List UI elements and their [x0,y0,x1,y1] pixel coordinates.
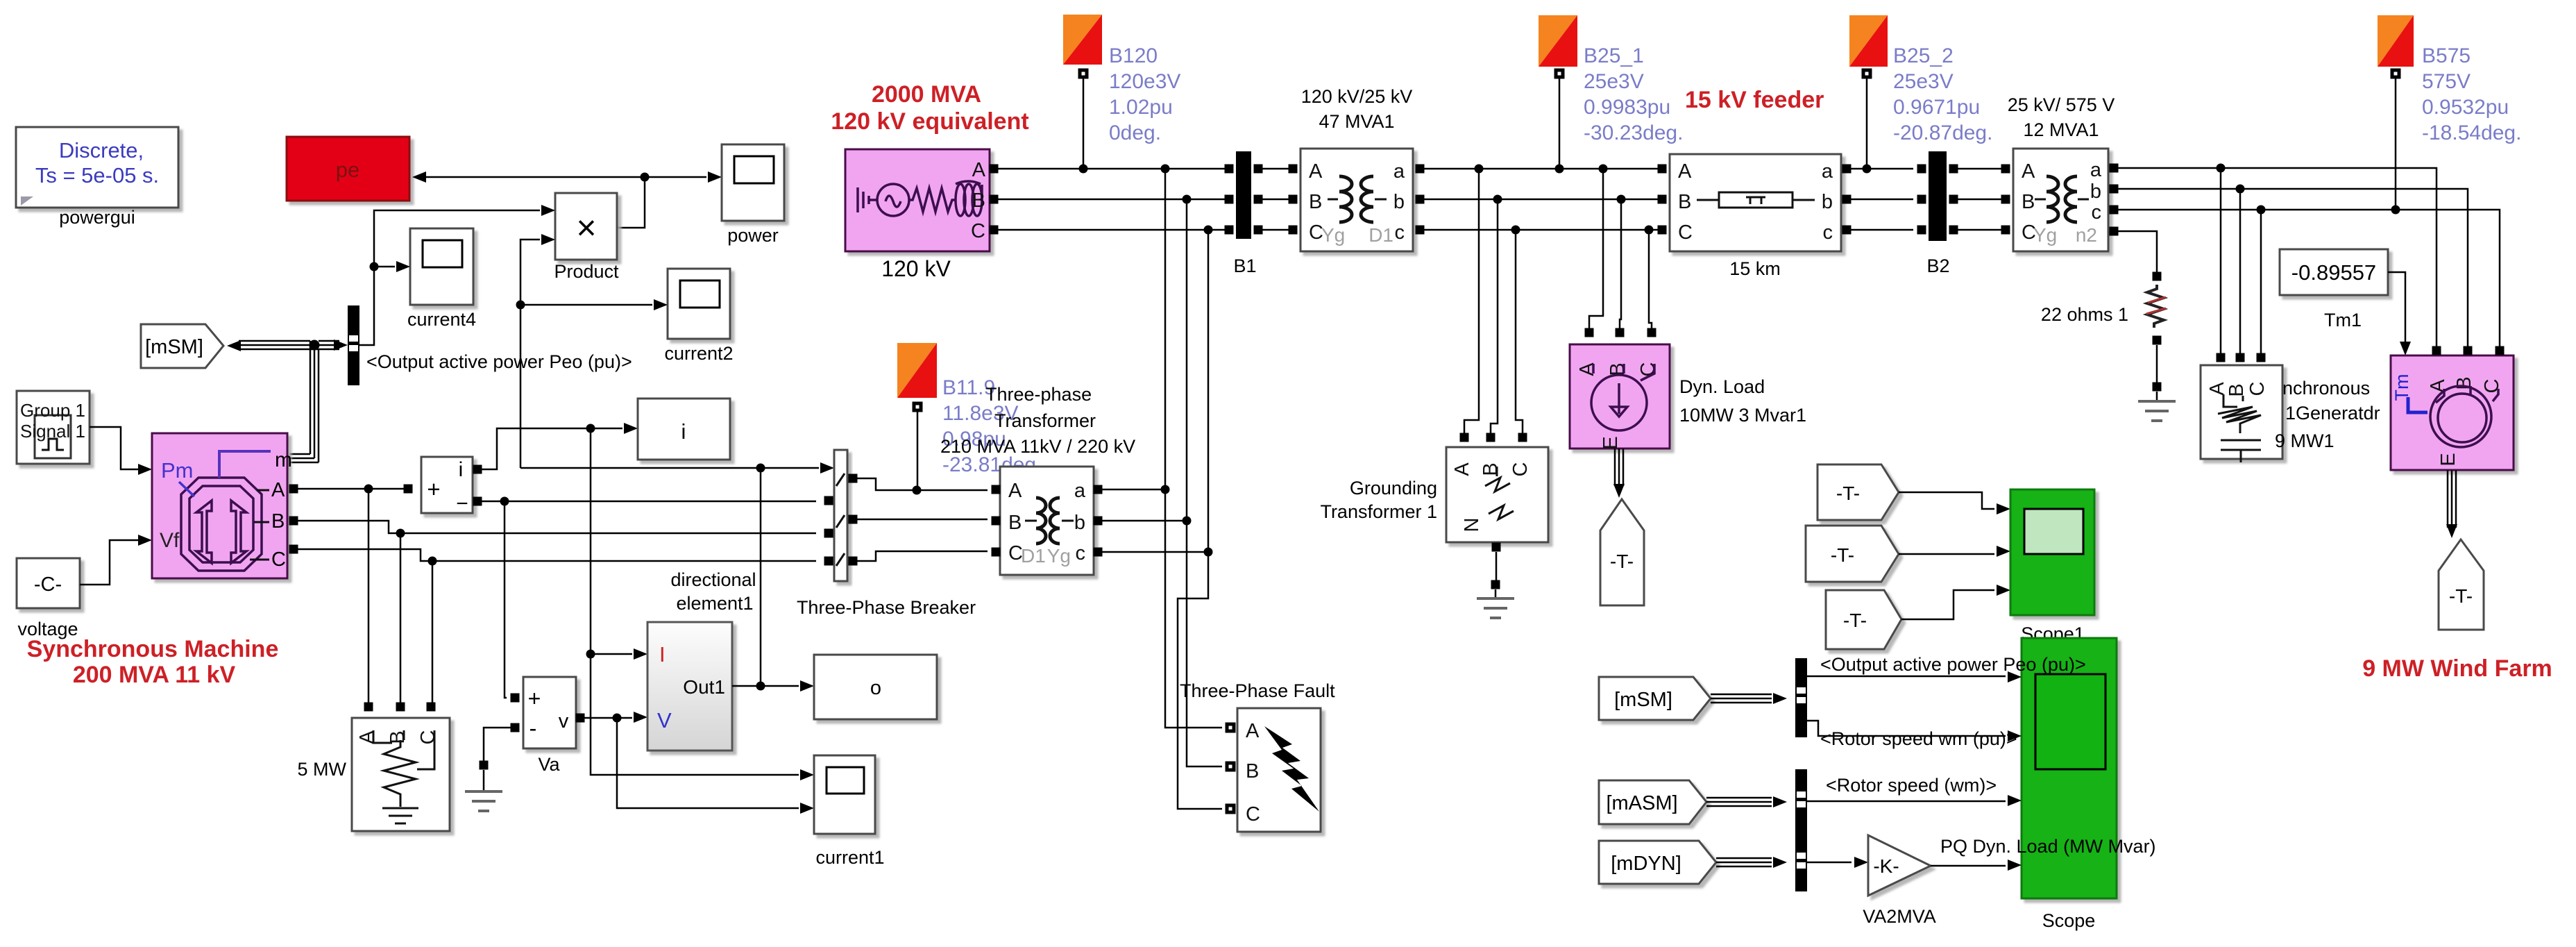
svg-text:+: + [427,476,440,502]
svg-text:Three-Phase Breaker: Three-Phase Breaker [797,597,976,618]
svg-text:m: m [275,449,292,471]
wire source B to B1 [998,199,1225,201]
scope Scope [2022,638,2117,931]
annotation 15 kV feeder [1685,87,1824,113]
powergui block [16,127,178,228]
block Va voltage measurement [511,677,585,775]
svg-text:-C-: -C- [34,573,62,596]
ground symbol near Va [465,770,502,811]
svg-text:A: A [1309,160,1323,183]
wire 47MVA a to 15km line [1424,165,1658,174]
svg-text:i: i [459,458,464,481]
svg-text:A: A [972,159,986,181]
svg-text:Transformer 1: Transformer 1 [1320,501,1437,522]
bus wire mDYN to selector [1716,857,1787,868]
svg-text:B: B [2226,383,2248,396]
svg-text:575V: 575V [2422,70,2471,93]
svg-text:D1: D1 [1021,545,1046,567]
from tag T3 [1826,590,1901,649]
vertical net phase A to fault [1161,165,1223,728]
marker B120 [1063,15,1102,169]
svg-text:C: C [271,548,286,571]
marker B25_1 [1539,15,1577,174]
line 15km block [1658,154,1851,279]
svg-text:Group 1: Group 1 [20,400,85,421]
svg-text:power: power [727,225,779,246]
bus wire dyn load to tag [1613,449,1625,498]
svg-text:B: B [1246,760,1259,782]
svg-text:Yg: Yg [1321,224,1345,246]
svg-text:C: C [971,220,985,242]
svg-text:Transformer: Transformer [994,410,1096,431]
svg-text:Scope: Scope [2042,910,2096,931]
svg-text:b: b [2090,181,2101,203]
svg-text:o: o [870,677,881,699]
svg-text:-T-: -T- [1610,551,1634,572]
wire bus selector to current4 and Product input 1 [359,205,555,345]
display block o [814,655,937,719]
svg-text:[mSM]: [mSM] [1614,689,1672,711]
wire phase A continue to breaker [482,497,816,506]
wire SM phase C [294,549,816,566]
svg-text:Ts = 5e-05 s.: Ts = 5e-05 s. [35,163,159,187]
svg-text:b: b [1822,191,1833,213]
svg-text:Grounding: Grounding [1350,478,1437,498]
block -C- voltage [17,558,80,639]
svg-text:25e3V: 25e3V [1584,70,1644,93]
gain VA2MVA [1863,835,1936,927]
svg-text:<Output active power Peo (pu: <Output active power Peo (pu)> [1820,654,2086,675]
annotation 9 MW wind farm [2362,655,2552,682]
annotation grounding transformer 1 [1320,478,1437,522]
wire phase A drop to load A [368,489,370,703]
svg-text:E: E [2437,453,2459,466]
wire T1 to Scope1 [1899,492,2010,514]
svg-text:25 kV/ 575 V: 25 kV/ 575 V [2008,94,2115,115]
svg-text:Dyn. Load: Dyn. Load [1679,376,1765,397]
svg-text:-K-: -K- [1873,855,1899,877]
annotation asynchronous generator [2275,378,2380,451]
svg-text:-30.23deg.: -30.23deg. [1584,121,1683,144]
svg-text:a: a [1393,160,1405,183]
block i display [638,399,730,460]
wire transformer b up to bus [1102,517,1192,526]
wire Va output to V input and current1 [584,712,814,814]
svg-text:C: C [1509,462,1532,477]
svg-text:120 kV equivalent: 120 kV equivalent [831,108,1028,135]
svg-text:5 MW: 5 MW [298,759,347,780]
svg-text:-T-: -T- [1836,483,1860,504]
svg-text:a: a [1074,480,1086,502]
svg-text:B25_1: B25_1 [1584,44,1644,67]
svg-text:Pm: Pm [161,458,194,483]
wire T3 to Scope1 [1901,585,2010,619]
wire n2 to 22 ohms resistor [2118,231,2162,281]
wind turbine block [2391,346,2514,471]
wire 12MVA c to wind farm [2118,206,2500,354]
block Tm1 constant [2280,249,2388,330]
svg-text:B120: B120 [1109,44,1158,67]
wire Out1 to display and breaker control [732,468,814,692]
wire breaker output C to transformer [857,551,988,561]
svg-text:[mDYN]: [mDYN] [1611,853,1681,875]
svg-text:120e3V: 120e3V [1109,70,1180,93]
svg-text:v: v [559,710,569,732]
svg-text:120 kV/25 kV: 120 kV/25 kV [1301,86,1413,107]
svg-text:N: N [1461,518,1483,533]
bus bar B1 [1225,151,1263,276]
svg-text:B: B [1480,462,1502,476]
svg-text:a: a [2090,159,2102,181]
wire to current2 [516,299,668,310]
svg-text:Synchronous Machine: Synchronous Machine [27,636,279,662]
bus wire SM m to mSM and selector [227,340,339,463]
svg-text:nchronous: nchronous [2282,378,2370,399]
wire -C- to Vf [80,535,152,585]
from tag below wind farm [2439,539,2484,630]
svg-text:-0.89557: -0.89557 [2291,260,2376,285]
wire SM phase A to current measure [294,485,404,494]
svg-text:200 MVA 11 kV: 200 MVA 11 kV [73,662,236,688]
annotation B25_1 [1584,44,1683,144]
annotation 2000 MVA 120kV equivalent [831,81,1028,135]
svg-text:[mSM]: [mSM] [145,336,203,358]
marker B25_2 [1849,15,1888,169]
svg-text:12 MVA1: 12 MVA1 [2023,119,2099,140]
svg-text:current2: current2 [664,343,733,364]
svg-text:Discrete,: Discrete, [59,138,144,162]
svg-text:B1: B1 [1233,255,1256,276]
bus bar B2 [1917,151,1958,276]
wire source C to B1 [998,229,1225,231]
svg-text:120 kV: 120 kV [881,256,951,281]
svg-text:b: b [1393,191,1405,213]
svg-text:Out1: Out1 [683,676,725,698]
goto tag mSM left [141,324,223,368]
wire phase C drop to load C [432,561,434,703]
svg-text:i: i [681,419,686,444]
source 120kV block [845,149,999,281]
svg-text:25e3V: 25e3V [1893,70,1954,93]
marker B575 [2378,15,2414,210]
svg-text:-T-: -T- [1843,610,1867,631]
wire gain to scope input 4 [1931,860,2022,871]
annotation B575 [2422,44,2521,144]
three-phase fault block [1226,708,1321,832]
block Product [554,193,619,282]
from tag below dyn load [1600,499,1644,605]
svg-text:c: c [1395,221,1405,244]
annotation three-phase transformer [940,384,1135,457]
svg-text:-20.87deg.: -20.87deg. [1893,121,1992,144]
svg-text:0deg.: 0deg. [1109,121,1161,144]
annotation synchronous machine [27,636,279,688]
svg-text:current4: current4 [407,309,476,330]
svg-text:a: a [1822,160,1833,183]
wire selector to scope input 1 [1807,671,2022,682]
svg-text:Yg: Yg [2033,224,2057,246]
wire Tm1 to wind farm [2388,272,2411,355]
annotation 120kV 25kV [1301,86,1413,132]
svg-text:A: A [1246,720,1260,742]
wire control line to breaker [520,462,834,474]
wire transformer a up to bus [1102,485,1170,494]
svg-text:10MW 3 Mvar1: 10MW 3 Mvar1 [1679,405,1806,426]
bus wire mSM to selector [1711,693,1787,704]
wire 12MVA a to wind farm [2118,164,2437,354]
wire source A to B1 [998,165,1225,174]
annotation output active power [366,351,632,372]
wire selector to scope input 3 [1807,795,2022,806]
marker B11 [897,343,937,490]
svg-text:Yg: Yg [1047,545,1071,567]
annotation B11 [942,376,1042,476]
svg-text:A: A [1451,462,1473,476]
svg-text:-T-: -T- [2449,585,2473,607]
wire phase B drop to load B [400,533,402,703]
bus selector mSM [1795,658,1807,737]
svg-text:B: B [1309,191,1322,213]
svg-text:C: C [1246,803,1260,826]
svg-text:Tm1: Tm1 [2324,310,2362,330]
from tag T1 [1817,464,1899,520]
goto tag mDYN [1599,841,1716,884]
goto tag mASM [1599,780,1706,824]
svg-text:B: B [271,510,285,533]
wire selector to scope input 2 [1807,721,2022,741]
block 5MW load [298,703,450,832]
block current measurement i [404,457,482,515]
svg-text:pe: pe [336,158,359,182]
svg-text:B: B [1678,191,1691,213]
svg-text:9 MW1: 9 MW1 [2275,430,2334,451]
svg-text:0.9532pu: 0.9532pu [2422,96,2509,119]
svg-text:B25_2: B25_2 [1893,44,1954,67]
svg-text:directional: directional [670,569,756,590]
wire B2 to transformer 12MVA [1958,169,2001,230]
RC filter block [2201,353,2282,463]
svg-text:×: × [576,208,596,247]
svg-text:B2: B2 [1926,255,1949,276]
svg-text:c: c [2092,201,2102,224]
svg-text:1.02pu: 1.02pu [1109,96,1173,119]
svg-text:9 MW Wind Farm: 9 MW Wind Farm [2362,655,2552,682]
svg-text:A: A [1576,362,1598,376]
svg-text:A: A [1678,160,1692,183]
transformer 47MVA block [1289,149,1425,251]
scope power [722,144,784,246]
annotation B120 [1109,44,1180,144]
svg-text:1Generatdr: 1Generatdr [2285,403,2380,424]
svg-text:C: C [1678,221,1693,244]
wire SM phase B [294,521,816,538]
svg-text:210 MVA 11kV / 220 kV: 210 MVA 11kV / 220 kV [940,436,1135,457]
svg-text:VA2MVA: VA2MVA [1863,906,1936,927]
svg-text:A: A [2022,160,2035,183]
svg-text:c: c [1823,221,1833,244]
wire 15km to B2 [1851,165,1913,231]
three-phase breaker block [797,450,976,618]
svg-text:I: I [659,642,666,667]
wire B1 to transformer 47MVA [1262,169,1289,230]
bus selector left [334,305,359,385]
svg-text:15 km: 15 km [1729,258,1781,279]
bus wire wind farm to tag [2446,470,2457,538]
svg-text:V: V [657,708,672,732]
wire T2 to Scope1 [1899,546,2010,557]
svg-text:powergui: powergui [59,207,135,228]
svg-text:-18.54deg.: -18.54deg. [2422,121,2521,144]
svg-text:current1: current1 [815,847,884,868]
scope current4 [407,228,476,330]
block directional element1 Out1 [647,569,756,751]
svg-text:PQ Dyn. Load (MW Mvar): PQ Dyn. Load (MW Mvar) [1940,836,2156,857]
scope Scope1 [2010,489,2094,644]
resistor 22 ohms [2041,285,2176,421]
svg-text:C: C [1637,362,1659,377]
annotation B25_2 [1893,44,1992,144]
svg-text:C: C [417,730,439,745]
wire breaker output A to transformer [857,478,988,495]
wire transformer c up to bus [1102,548,1213,557]
svg-text:Product: Product [554,261,619,282]
svg-text:<Rotor speed (wm)>: <Rotor speed (wm)> [1826,775,1997,796]
wire drops to grounding transformer [1460,169,1527,442]
wire i measure output to i display [482,423,638,469]
svg-text:Signal 1: Signal 1 [20,421,85,442]
svg-text:c: c [1076,542,1086,564]
vertical net phase B to fault [1183,195,1223,767]
svg-text:B: B [2022,191,2035,213]
grounding transformer block [1446,447,1548,618]
svg-text:-T-: -T- [1831,544,1854,566]
bus selector mDYN [1795,833,1807,891]
annotation rotor speed wm pu [1820,728,2017,749]
svg-text:15 kV feeder: 15 kV feeder [1685,87,1824,113]
wire Va minus to ground [480,728,511,770]
transformer 210MVA D1-Yg block [992,467,1103,575]
annotation rotor speed wm [1826,775,1997,796]
block Group 1 Signal 1 [17,391,90,464]
from tag T2 [1806,526,1899,582]
bus selector mASM [1795,769,1807,833]
svg-text:-: - [529,716,537,741]
svg-text:<Output active power Peo (pu: <Output active power Peo (pu)> [366,351,632,372]
svg-text:n2: n2 [2076,224,2097,246]
svg-text:Vf: Vf [160,529,180,552]
svg-text:C: C [2246,382,2269,396]
svg-text:B: B [1008,512,1022,534]
svg-text:Va: Va [538,754,560,775]
svg-text:<Rotor speed wm (pu)>: <Rotor speed wm (pu)> [1820,728,2017,749]
svg-text:Three-phase: Three-phase [985,384,1092,405]
svg-text:Tm: Tm [2391,374,2412,401]
svg-text:element1: element1 [676,593,753,614]
svg-text:0.9983pu: 0.9983pu [1584,96,1670,119]
transformer 12MVA block [2001,149,2119,251]
svg-text:0.9671pu: 0.9671pu [1893,96,1980,119]
scope current1 [814,755,885,868]
bus wire mASM to selector [1706,796,1787,807]
wire 47MVA c to 15km line [1424,226,1658,235]
wire breaker output B to transformer [857,519,988,521]
wire phase A down to Va plus [505,501,520,703]
svg-text:2000 MVA: 2000 MVA [872,81,981,108]
svg-text:b: b [1074,512,1085,534]
wire selector to gain [1807,857,1868,868]
svg-text:E: E [1600,436,1622,449]
svg-text:+: + [528,686,541,711]
dyn load block [1570,344,1806,450]
annotation 25kV 575V [2008,94,2115,140]
wire to Product input 2 [520,234,555,468]
annotation output active power right [1820,654,2086,675]
annotation three-phase fault [1180,680,1335,701]
svg-text:Three-Phase Fault: Three-Phase Fault [1180,680,1335,701]
svg-text:C: C [2481,379,2503,394]
annotation PQ dyn load [1940,836,2156,857]
wire Group1 to Pm [90,427,152,475]
display pe [287,137,409,201]
wire current signal down to directional element and current1 [586,428,815,780]
goto tag mSM right [1599,677,1711,720]
vertical net phase C to fault [1178,226,1222,810]
svg-text:A: A [271,479,285,501]
wire drops to dyn load [1585,169,1656,337]
wire 12MVA b to wind farm [2118,185,2468,354]
svg-text:47 MVA1: 47 MVA1 [1319,111,1394,132]
wire Product output to pe and power [412,171,722,228]
svg-text:[mASM]: [mASM] [1606,792,1677,814]
svg-text:22 ohms 1: 22 ohms 1 [2041,304,2128,325]
svg-text:A: A [1008,480,1022,502]
svg-text:B575: B575 [2422,44,2471,67]
synchronous machine block [152,433,298,578]
scope current2 [664,269,733,364]
svg-text:D1: D1 [1368,224,1393,246]
wire 47MVA b to 15km line [1424,195,1658,204]
svg-text:B: B [972,190,985,212]
svg-text:−: − [456,492,468,515]
